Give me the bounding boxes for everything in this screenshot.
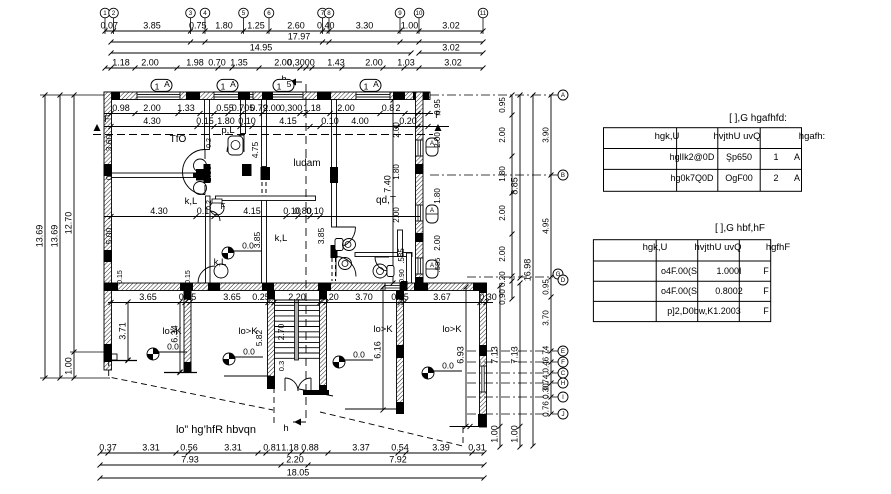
svg-text:0.98: 0.98 [112,103,130,113]
room label kL 1 [214,257,227,268]
door bath1 [336,257,356,277]
svg-text:9: 9 [398,10,402,17]
svg-text:A: A [794,152,800,162]
svg-text:h: h [283,423,288,434]
room label loK 2 [238,326,258,337]
svg-text:13.69: 13.69 [35,225,45,248]
svg-text:1: 1 [773,152,778,162]
svg-text:0.0: 0.0 [242,241,254,251]
WC fixture 1 [335,239,356,251]
level marker 4 [422,361,462,380]
svg-text:C: C [561,370,566,377]
beam tag 4 [360,79,381,92]
washbasin pL [228,136,243,155]
top dimension chain row1 [101,21,486,34]
svg-text:lo>K: lo>K [442,324,462,335]
svg-text:F: F [763,306,769,316]
svg-text:E: E [561,348,565,355]
svg-text:2.60: 2.60 [287,21,305,31]
svg-text:2.00: 2.00 [141,58,159,68]
svg-text:hg0k7Q0D: hg0k7Q0D [670,173,714,183]
level marker 2 [223,347,263,366]
svg-text:2.70: 2.70 [276,323,286,340]
svg-text:0.15: 0.15 [391,292,409,302]
table 2 row 1 text [661,266,769,276]
svg-text:3.02: 3.02 [442,43,460,53]
vdim 3.60 left [104,134,114,151]
svg-text:3.30: 3.30 [356,21,374,31]
svg-text:lo>K: lo>K [373,324,393,335]
interior dim row y297 lower [108,292,497,305]
svg-text:0.10: 0.10 [306,206,324,216]
svg-text:1.18: 1.18 [303,103,321,113]
axis circle H [467,378,568,388]
svg-text:3.71: 3.71 [118,322,128,340]
left dimension 13.69 outer [35,93,48,381]
interior wall hall left vertical [204,100,211,184]
svg-text:2.00: 2.00 [433,132,442,148]
caption text [176,424,256,436]
svg-text:2.00: 2.00 [498,246,507,262]
room label qdT [376,195,396,206]
right chain 16.98 [523,93,536,449]
vdim 3.85 kL [252,231,262,248]
table 2 header text [643,242,791,253]
svg-text:0.37: 0.37 [99,443,117,453]
svg-text:1.00: 1.00 [490,425,500,443]
vdim 6.93 [456,285,469,429]
svg-text:1: 1 [221,82,226,92]
svg-text:p,L: p,L [221,125,234,136]
svg-text:ludam: ludam [293,158,320,169]
section line h vertical [305,150,307,422]
svg-text:7.93: 7.93 [181,455,199,465]
right chain axis segments [542,93,554,417]
svg-text:3.02: 3.02 [442,21,460,31]
room label loK 4 [442,324,462,335]
svg-text:k,L: k,L [275,233,288,244]
svg-text:1.43: 1.43 [327,58,345,68]
svg-text:0.15: 0.15 [196,116,214,126]
svg-text:qd,T: qd,T [376,195,396,206]
svg-text:0.0: 0.0 [442,361,454,371]
vdim 7.40 qdT [383,98,396,286]
vdim 0.10 left [104,163,114,180]
door kL toilet small [210,211,220,221]
interior wall kL vertical [206,196,211,283]
svg-text:0.95: 0.95 [542,279,551,295]
level marker 3 [333,350,373,369]
svg-text:0.10: 0.10 [321,116,339,126]
svg-text:1.25: 1.25 [247,21,265,31]
svg-text:5: 5 [242,10,246,17]
bottom dimension chain row2 [98,455,487,468]
svg-text:1.18: 1.18 [281,443,299,453]
axis circle E [467,346,568,356]
svg-text:A: A [164,79,170,89]
svg-text:5.00: 5.00 [104,227,114,244]
svg-text:2.00: 2.00 [392,122,401,138]
svg-text:2.00: 2.00 [392,207,401,223]
svg-text:k,L: k,L [185,196,198,207]
svg-text:p]2,D0bw,K1.2003: p]2,D0bw,K1.2003 [667,306,741,316]
svg-text:2.00: 2.00 [143,103,161,113]
top exterior wall [104,92,430,101]
svg-text:0.20: 0.20 [321,292,339,302]
svg-text:14.95: 14.95 [250,43,273,53]
axis circle B [430,170,568,180]
right chain 8.85 / 7.13 / 1.00 [510,93,523,450]
svg-text:16.98: 16.98 [523,259,533,282]
stair left wall [267,291,275,390]
interior wall ludam left vertical [261,100,271,284]
svg-text:0.15: 0.15 [117,270,124,284]
svg-text:0.70: 0.70 [208,58,226,68]
level marker 1 [147,342,187,361]
double door hall [183,150,207,195]
svg-text:hglIk2@0D: hglIk2@0D [670,152,715,162]
svg-text:4.00: 4.00 [351,116,369,126]
svg-text:0.20: 0.20 [399,116,417,126]
svg-text:hvjthU uvQ: hvjthU uvQ [714,131,761,142]
svg-text:I: I [562,394,564,401]
svg-text:hgk,U: hgk,U [643,242,668,253]
svg-text:1.03: 1.03 [397,58,415,68]
section marker h bottom [283,419,306,435]
interior wall kL top horizontal black [196,169,207,181]
room label pL [221,125,234,136]
vdim 1.30 hall [203,138,213,210]
table 2 row 2 text [661,286,769,296]
svg-text:1.98: 1.98 [186,58,204,68]
svg-text:18.05: 18.05 [287,468,310,478]
svg-text:3.31: 3.31 [224,443,242,453]
svg-text:3.37: 3.37 [352,443,370,453]
svg-text:H: H [561,380,565,387]
svg-text:7.13: 7.13 [490,346,500,364]
room label ludam [293,158,320,169]
svg-text:1.80: 1.80 [215,21,233,31]
left dimension 13.69 inner [50,93,63,381]
svg-text:2.00: 2.00 [365,58,383,68]
right exterior wall upper [415,92,424,290]
table 1 row 1 text [670,152,800,162]
vdim 5.00 left [104,227,114,244]
svg-text:0.90: 0.90 [399,269,406,283]
right chain 7.13 inner [490,284,503,450]
top dimension chain 17.97 [109,32,486,45]
svg-text:7.40: 7.40 [383,175,393,193]
svg-text:2.00: 2.00 [337,103,355,113]
interior wall TfO bottom horizontal [112,173,206,179]
svg-text:0.81: 0.81 [263,443,281,453]
svg-text:0.31: 0.31 [468,443,486,453]
svg-text:4.15: 4.15 [279,116,297,126]
svg-text:3.67: 3.67 [433,292,451,302]
right exterior wall lower [478,283,487,427]
door pL [227,135,244,152]
svg-text:2.00: 2.00 [498,127,507,143]
svg-text:hgafh:: hgafh: [799,131,825,142]
axis circle A [430,90,568,100]
svg-text:2.00: 2.00 [263,103,281,113]
svg-text:0.40: 0.40 [317,21,335,31]
svg-text:0.10: 0.10 [238,116,256,126]
svg-text:2.00: 2.00 [498,205,507,221]
left dimension 12.70 and 1.00 [64,93,77,381]
svg-text:5: 5 [287,79,292,89]
svg-text:0.30: 0.30 [479,292,497,302]
svg-text:17.97: 17.97 [288,32,311,42]
svg-text:0.15: 0.15 [185,270,192,284]
entrance double door [285,378,311,391]
sill room4 edge [450,424,486,429]
entrance sill [299,389,333,396]
svg-text:13.69: 13.69 [50,225,60,248]
svg-text:1.80: 1.80 [498,166,507,182]
svg-text:4: 4 [203,10,207,17]
top dimension chain 14.95 and 3.02 [109,43,486,56]
interior wall bath lower horizontal [355,230,412,291]
svg-text:1.35: 1.35 [230,58,248,68]
level marker 5 [222,241,262,260]
svg-text:3.90: 3.90 [542,127,551,143]
svg-text:o4F.00(S: o4F.00(S [661,286,697,296]
svg-text:F: F [763,286,769,296]
svg-text:3.70: 3.70 [542,310,551,326]
svg-text:0,3000: 0,3000 [287,58,315,68]
svg-text:4.75: 4.75 [250,141,260,158]
svg-text:10: 10 [416,10,423,17]
svg-text:3.65: 3.65 [223,292,241,302]
svg-text:0.0: 0.0 [243,347,255,357]
svg-text:A: A [430,208,434,214]
vdim 3.71 lower left [118,300,131,363]
svg-text:1.80: 1.80 [433,188,442,204]
left dim extension lines [40,95,110,378]
svg-text:hvjthU uvQ: hvjthU uvQ [695,242,742,253]
bottom dimension chain row1 [98,443,487,456]
svg-text:F: F [221,202,226,211]
svg-text:0.95: 0.95 [498,97,507,113]
section line F-F [93,110,442,135]
svg-text:2.20: 2.20 [288,292,306,302]
svg-text:1.18: 1.18 [112,58,130,68]
vdim chain qdT right [392,122,406,283]
vdim 3.85 bath [316,227,326,244]
interior wall bath horizontal [216,196,316,201]
door WC3 [375,257,389,271]
svg-text:8: 8 [327,10,331,17]
beam tag 2 [217,79,238,92]
interior wall lower room divider [164,291,197,376]
table 1 title [729,113,787,124]
svg-text:hgfhF: hgfhF [766,242,790,253]
svg-text:1: 1 [103,10,107,17]
vdim 6.16 [373,285,386,413]
svg-text:3.02: 3.02 [444,58,462,68]
svg-text:TfO: TfO [170,134,187,145]
sill left room [109,358,137,363]
svg-text:6.16: 6.16 [373,341,383,359]
radiator 1 [426,138,438,156]
svg-text:1.00: 1.00 [64,357,74,375]
dashed boundary left diagonal [109,360,273,410]
svg-text:1.30: 1.30 [203,165,213,182]
table 2 title [715,223,765,234]
sill room2 edge [224,375,271,377]
svg-text:11: 11 [480,10,487,17]
svg-text:D: D [561,277,566,284]
svg-text:2.20: 2.20 [286,455,304,465]
room label loK 3 [373,324,393,335]
beam tag 1 [151,79,172,92]
table 1 row 2 text [670,173,800,183]
svg-text:lo>K: lo>K [238,326,258,337]
svg-text:2: 2 [112,10,116,17]
svg-text:0.0: 0.0 [167,342,179,352]
svg-text:3.70: 3.70 [355,292,373,302]
left exterior wall [104,92,118,370]
WC fixture 2 [339,258,352,270]
table 1 grid [604,128,802,192]
svg-text:0.0: 0.0 [353,350,365,360]
radiator 3 [426,260,438,278]
svg-text:0.56: 0.56 [180,443,198,453]
svg-text:6.93: 6.93 [456,346,466,364]
table 2 row 3 text [667,306,769,316]
door qdT [335,227,356,248]
svg-text:4.95: 4.95 [542,218,551,234]
vdim chain right exterior [433,99,442,273]
svg-text:1.000I: 1.000I [716,266,741,276]
dashed vertical stair left [273,377,275,424]
radiator 2 [426,205,438,223]
svg-text:lo>K: lo>K [162,326,182,337]
svg-text:.585: .585 [397,248,406,264]
axis circle J [467,409,568,419]
interior dim row y120 [104,116,449,129]
middle horizontal wall [104,283,487,292]
svg-text:0.2: 0.2 [206,138,213,148]
room label loK 1 [162,326,182,337]
svg-text:0.76 0.30: 0.76 0.30 [542,383,551,417]
svg-text:0.3: 0.3 [277,361,286,371]
small dim 0.15 labels [117,270,192,284]
top dimension chain row4 [103,58,486,71]
WC fixture 3 [373,264,394,278]
axis circle C [467,368,568,378]
svg-text:1: 1 [277,82,282,92]
svg-text:0.25: 0.25 [252,292,270,302]
svg-text:2.00: 2.00 [433,235,442,251]
svg-text:4.15: 4.15 [243,206,261,216]
axis circle F [467,357,568,367]
svg-text:8.85: 8.85 [510,177,520,195]
room label kL upper [185,196,198,207]
svg-text:0.8: 0.8 [382,103,395,113]
svg-text:0,90 0.20: 0,90 0.20 [498,271,507,305]
svg-text:B: B [561,172,565,179]
room label TfO [170,134,187,145]
svg-text:A: A [794,173,800,183]
svg-text:0.54: 0.54 [391,443,409,453]
staircase [275,300,320,360]
svg-text:6: 6 [267,10,271,17]
svg-text:3.65: 3.65 [139,292,157,302]
svg-text:1.33: 1.33 [177,103,195,113]
svg-text:[ ],G hgafhfd:: [ ],G hgafhfd: [729,113,787,124]
dashed boundary right diagonal [320,412,463,446]
svg-text:3.60: 3.60 [104,134,114,151]
svg-text:1.00: 1.00 [401,21,419,31]
svg-text:F: F [763,266,769,276]
toilet kL [210,199,226,215]
svg-text:1.80: 1.80 [392,164,401,180]
svg-text:[ ],G hbf,hF: [ ],G hbf,hF [715,223,765,234]
bottom dimension chain 18.05 [98,468,487,481]
svg-text:.585: .585 [433,258,442,273]
svg-text:0.10: 0.10 [104,163,114,180]
svg-text:lo” hg’hfR hbvqn: lo” hg’hfR hbvqn [176,424,256,436]
svg-text:3.85: 3.85 [143,21,161,31]
svg-text:1: 1 [364,82,369,92]
svg-text:Şp650: Şp650 [726,152,752,162]
interior dim row y108 [104,103,433,116]
right chain small increments [498,93,515,305]
svg-text:0.8002: 0.8002 [715,286,743,296]
svg-text:2: 2 [395,103,400,113]
axis circles 1-11 [100,8,488,34]
axis circle I [467,392,568,402]
room label kL 2 [275,233,288,244]
svg-text:F: F [561,359,565,366]
svg-text:3.39: 3.39 [432,443,450,453]
svg-text:0.95: 0.95 [433,99,442,115]
svg-text:12.70: 12.70 [64,212,74,235]
svg-text:0.88: 0.88 [301,443,319,453]
svg-text:1.00: 1.00 [510,425,520,443]
svg-text:o4F.00(S: o4F.00(S [661,266,697,276]
svg-text:0,300: 0,300 [280,103,303,113]
svg-text:0.75: 0.75 [189,21,207,31]
sill room3 edge [345,408,404,410]
svg-text:hgk,U: hgk,U [655,131,680,142]
svg-text:1: 1 [155,82,160,92]
interior wall pL vertical [241,100,252,177]
svg-text:4.30: 4.30 [150,206,168,216]
svg-text:OgF00: OgF00 [725,173,753,183]
svg-text:3.85: 3.85 [316,227,326,244]
svg-text:3.31: 3.31 [142,443,160,453]
axis circle G D pair [467,269,568,285]
section marker h top [281,74,306,150]
door kL [198,264,228,283]
vdim 4.75 ludam left [250,141,260,158]
table 2 grid [593,240,770,322]
interior wall ludam right vertical [330,100,338,282]
vdim 6.34 lower [170,300,183,375]
svg-text:0.07: 0.07 [101,21,119,31]
vdim 5.82 stair [254,329,264,346]
vdim 2.70 stair [276,323,286,371]
svg-text:A: A [230,79,236,89]
interior dim row y211 [104,206,420,219]
svg-text:4.30: 4.30 [143,116,161,126]
svg-text:A: A [373,79,379,89]
svg-text:3: 3 [189,10,193,17]
svg-text:7.13: 7.13 [510,346,520,364]
